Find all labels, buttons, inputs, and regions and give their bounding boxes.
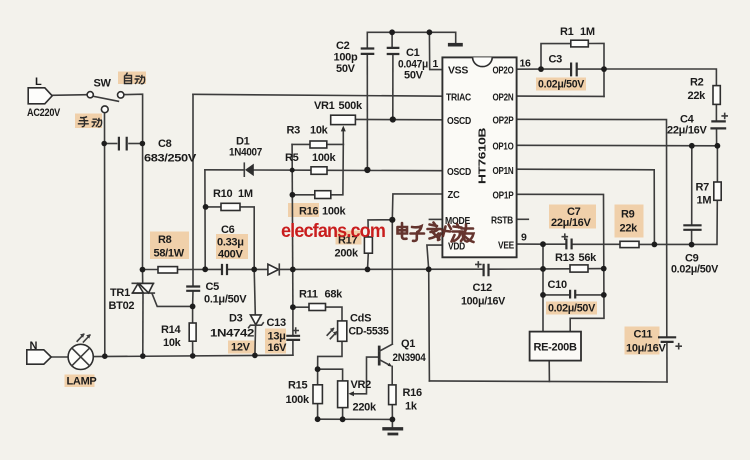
svg-text:C6: C6 (221, 224, 235, 236)
resistor R15 (286, 380, 323, 407)
svg-text:R2: R2 (690, 77, 704, 89)
svg-text:1M: 1M (697, 195, 712, 207)
svg-text:1M: 1M (580, 26, 595, 38)
svg-text:58/1W: 58/1W (154, 248, 185, 260)
wire C7 to R9 (572, 243, 620, 245)
wire OP1P net (517, 194, 604, 331)
svg-text:1M: 1M (238, 188, 253, 200)
svg-text:100k: 100k (286, 394, 310, 406)
capacitor C5 (186, 281, 247, 306)
svg-text:C3: C3 (549, 54, 563, 66)
capacitor C4 (667, 113, 727, 136)
wire C8 node down to R8 node (142, 144, 144, 270)
HIGHLIGHTS (65, 72, 660, 388)
wire R15 leads (317, 369, 319, 385)
wire OP2P net down right side (517, 119, 667, 337)
node R5 line x292 (290, 168, 295, 173)
photoresistor CdS CD-5535 (327, 313, 388, 342)
svg-text:L: L (35, 76, 42, 88)
label 自动 (auto) (125, 73, 145, 84)
svg-text:22k: 22k (688, 90, 707, 102)
node R15 top (315, 366, 321, 372)
svg-text:2N3904: 2N3904 (393, 352, 427, 364)
wire C11 bottom to rail (666, 342, 668, 382)
wire OP1O row (517, 144, 718, 147)
VSS rail bar (448, 43, 463, 47)
wire R14 bottom to lamp line (192, 341, 194, 356)
node VEE C7 (540, 241, 546, 247)
node lamp line triac (140, 353, 146, 359)
svg-text:C5: C5 (206, 281, 220, 293)
resistor R9 (620, 209, 640, 248)
node bus x254 (251, 267, 257, 273)
resistor R1 (560, 26, 595, 47)
svg-text:0.1μ/50V: 0.1μ/50V (204, 294, 247, 306)
svg-text:R16: R16 (403, 387, 422, 399)
switch manual contact (101, 106, 108, 113)
wire mains bus to TRIAC pin (193, 94, 443, 96)
svg-text:0.02μ/50V: 0.02μ/50V (538, 79, 585, 91)
potentiometer VR2 (338, 379, 377, 414)
svg-text:OP2P: OP2P (493, 115, 514, 127)
resistor R6 (299, 191, 346, 218)
wire triac MT2 (142, 270, 144, 284)
node R13 right (601, 266, 607, 272)
node top rail C1 (389, 29, 395, 35)
node lamp line x104 (102, 353, 108, 359)
node R17 bottom bus (365, 267, 371, 273)
wire R7 top (716, 146, 718, 182)
node R10 left (203, 204, 209, 210)
svg-text:R1: R1 (560, 26, 574, 38)
capacitor C11 (626, 329, 681, 355)
node ground row VR2 (340, 416, 346, 422)
wire pin16 stub (517, 68, 541, 70)
potentiometer VR1 (314, 100, 363, 131)
wire R1 feedback loop (541, 44, 571, 70)
wire R13 bus segment (543, 268, 570, 270)
svg-text:D3: D3 (229, 313, 243, 325)
resistor R2 (688, 77, 721, 105)
wire manual contact down to lamp line (104, 113, 106, 357)
svg-text:R16: R16 (299, 206, 318, 218)
svg-text:1: 1 (433, 58, 439, 70)
wire bottom rail (429, 381, 667, 382)
wire ground stem (391, 419, 393, 428)
svg-text:R14: R14 (161, 324, 181, 336)
capacitor C13 (267, 317, 301, 354)
svg-text:56k: 56k (579, 252, 598, 264)
relay module RE-200B (530, 332, 581, 361)
wire CdS bottom jog (318, 341, 342, 369)
wire VR2 bottom (342, 408, 344, 420)
svg-text:R3: R3 (287, 125, 301, 137)
wire OP2N row (517, 95, 604, 97)
wire VDD pin to bus (427, 245, 443, 269)
svg-text:N: N (30, 340, 38, 352)
svg-text:683/250V: 683/250V (144, 153, 197, 165)
wire triac gate (152, 293, 193, 306)
wire C3 leads (541, 68, 571, 70)
wire lamp line (93, 355, 293, 356)
capacitor C9 (671, 225, 719, 275)
wire N to lamp (51, 356, 68, 358)
wire R6 leads (292, 194, 314, 196)
wire D1 corner down to bus (204, 170, 206, 269)
svg-text:50V: 50V (336, 63, 356, 75)
wire R11 leads (293, 306, 309, 308)
wire C2 stems (366, 32, 368, 48)
wire C13 bottom lead (292, 341, 294, 356)
wire R3 row (292, 143, 310, 145)
svg-text:22μ/16V: 22μ/16V (667, 125, 707, 137)
wire ZC down to Q1 collector (391, 220, 393, 344)
node R8 left junction (140, 267, 146, 273)
svg-text:100k: 100k (322, 206, 346, 218)
resistor R3 (287, 125, 329, 149)
node ground row R16 (390, 417, 396, 423)
svg-text:0.02μ/50V: 0.02μ/50V (671, 264, 719, 276)
svg-text:68k: 68k (325, 289, 344, 301)
svg-text:13μ: 13μ (268, 331, 286, 343)
wire ZC branch to R17 (368, 220, 392, 237)
switch auto contact (118, 92, 124, 98)
wire VDD bus y=269 segments (143, 269, 159, 271)
wire R9 to R7 corner (639, 200, 717, 244)
wire C8 right lead (129, 143, 143, 145)
node bus x205 (202, 266, 208, 272)
wire C4 top lead (715, 104, 717, 121)
wire top VSS rail (367, 32, 455, 43)
svg-text:0.02μ/50V: 0.02μ/50V (548, 303, 596, 315)
svg-text:0.33μ: 0.33μ (217, 237, 244, 249)
node pin16 C3 left (538, 66, 544, 72)
svg-text:R10: R10 (213, 188, 232, 200)
node R11 left (290, 304, 296, 310)
node top rail pin1 (427, 29, 433, 35)
wire D3 anode (254, 269, 255, 314)
node C9 top (689, 143, 695, 149)
svg-text:VEE: VEE (498, 240, 514, 252)
svg-text:C8: C8 (158, 138, 172, 150)
resistor R8 (154, 234, 185, 273)
svg-text:CD-5535: CD-5535 (349, 326, 389, 338)
svg-text:VR2: VR2 (351, 379, 372, 391)
node C3 right (601, 66, 607, 72)
resistor R17 (335, 235, 373, 260)
resistor R7 (696, 182, 722, 207)
resistor R16 (389, 385, 422, 413)
wire R16 bottom (391, 405, 393, 420)
wire C8 left lead (104, 143, 116, 145)
svg-text:Q1: Q1 (401, 338, 415, 350)
svg-text:1N4742: 1N4742 (210, 328, 254, 340)
resistor R11 (299, 289, 343, 311)
svg-text:22μ/16V: 22μ/16V (551, 217, 591, 229)
svg-text:R7: R7 (696, 182, 710, 194)
capacitor C12 (461, 262, 506, 308)
wire R2 top corner (604, 69, 716, 86)
wire C4 bottom lead (716, 129, 718, 146)
svg-text:OP2O: OP2O (493, 65, 514, 77)
wire VR1 wiper shaft (342, 129, 344, 145)
wire gate node to R14 (192, 306, 194, 323)
wire VR2 wiper to Q1 base (353, 357, 378, 394)
svg-text:VSS: VSS (448, 65, 468, 77)
wire VEE row to C7 (543, 243, 566, 245)
svg-text:BT02: BT02 (109, 300, 135, 312)
svg-text:C12: C12 (473, 282, 492, 294)
connector L (AC220V live) (27, 76, 61, 119)
wire divider bus x292 (291, 144, 294, 307)
svg-text:C10: C10 (548, 279, 567, 291)
wire x193 bus corner down to C5 (192, 94, 194, 286)
capacitor C2 (334, 40, 375, 75)
capacitor C3 (538, 54, 585, 91)
wire auto contact to C8 right (124, 94, 143, 143)
svg-text:OSCD: OSCD (447, 166, 472, 178)
svg-text:220k: 220k (353, 402, 377, 414)
svg-text:OSCD: OSCD (447, 115, 472, 127)
svg-text:C2: C2 (336, 40, 350, 52)
label 手动 (manual) (78, 117, 102, 127)
svg-text:16: 16 (520, 58, 532, 70)
svg-text:AC220V: AC220V (27, 107, 61, 119)
svg-text:OP1N: OP1N (493, 165, 514, 177)
wire C9 stems (691, 146, 693, 225)
node ground row R15 (315, 416, 321, 422)
resistor R13 (555, 252, 597, 272)
wire RSTB stub (517, 218, 529, 220)
svg-text:R5: R5 (285, 152, 299, 164)
node R13 left (540, 266, 546, 272)
wire D1 R5 row to OSCD (205, 169, 244, 171)
capacitor C7 (551, 206, 591, 249)
svg-text:HT7610B: HT7610B (477, 127, 489, 184)
wire bus down to bottom rail (428, 269, 431, 381)
svg-text:50V: 50V (404, 70, 424, 82)
svg-text:R11: R11 (299, 289, 318, 301)
svg-text:C11: C11 (634, 329, 653, 341)
node ZC branch (389, 217, 395, 223)
svg-text:C13: C13 (267, 317, 286, 329)
wire bottom ground row (318, 418, 393, 420)
svg-text:500k: 500k (339, 100, 363, 112)
node lamp line D3 (252, 353, 258, 359)
diode D1 1N4007 (229, 136, 262, 177)
svg-text:C1: C1 (406, 47, 420, 59)
connector N (neutral) (27, 340, 51, 364)
wire OP1N net (517, 169, 655, 244)
svg-text:SW: SW (94, 78, 112, 90)
svg-text:TRIAC: TRIAC (446, 92, 472, 104)
node C8 left junction (101, 141, 107, 147)
svg-text:CdS: CdS (350, 313, 371, 325)
svg-text:R15: R15 (288, 380, 307, 392)
svg-text:10k: 10k (310, 125, 329, 137)
svg-text:200k: 200k (335, 248, 359, 260)
wire R10 right lead down (240, 207, 254, 270)
wire VEE pin 9 stub (517, 243, 543, 245)
svg-text:R8: R8 (158, 234, 172, 246)
wire Q1 emitter to R16 (391, 366, 393, 385)
svg-text:100k: 100k (312, 152, 336, 164)
svg-text:VR1: VR1 (314, 100, 335, 112)
node C8 right junction (140, 141, 146, 147)
resistor R5 (285, 152, 336, 174)
wire C10 row (543, 294, 568, 296)
wire R10 left lead (206, 206, 221, 208)
svg-text:1N4007: 1N4007 (229, 147, 262, 159)
wire VR1 to OSCD pin (355, 118, 442, 120)
svg-text:R9: R9 (621, 209, 635, 221)
resistor R14 (161, 323, 196, 349)
svg-text:OP2N: OP2N (493, 92, 514, 104)
svg-text:22k: 22k (620, 223, 639, 235)
switch SW common contact (87, 78, 111, 98)
wire triac MT1 to lamp line (142, 293, 144, 356)
watermark 电子发烧友 calligraphy (398, 223, 474, 243)
wire MODE stub (429, 218, 442, 220)
svg-text:ZC: ZC (448, 189, 461, 201)
node C10 right (601, 292, 607, 298)
svg-text:9: 9 (521, 232, 527, 244)
svg-text:10k: 10k (163, 337, 182, 349)
svg-text:RSTB: RSTB (491, 215, 514, 227)
svg-text:R13: R13 (555, 252, 574, 264)
node bus x292 (290, 267, 296, 273)
wire C13 top lead (292, 307, 294, 336)
wire pin1 stub (429, 32, 442, 69)
node R6 left (290, 192, 296, 198)
node gate C5 R14 (190, 304, 196, 310)
IC U1 HT7610B (433, 57, 532, 257)
svg-text:12V: 12V (231, 342, 251, 354)
wire C7 node down to RE-200B (542, 244, 544, 332)
resistor R10 (213, 188, 253, 211)
node C2 bottom (364, 167, 370, 173)
capacitor C1 (387, 47, 428, 82)
node C10 left (540, 292, 546, 298)
transistor Q1 2N3904 (379, 338, 426, 367)
wire R17 bottom to bus (367, 253, 370, 269)
wire C5 bottom to gate node (192, 291, 194, 306)
wire ZC net (392, 194, 442, 220)
svg-text:OP1P: OP1P (493, 190, 514, 202)
node C9 bottom (689, 242, 695, 248)
node C4 R7 (715, 143, 721, 149)
svg-text:100μ/16V: 100μ/16V (461, 296, 506, 308)
node VDD bus (426, 266, 432, 272)
wire C1 stems (391, 32, 393, 47)
svg-text:1k: 1k (405, 401, 418, 413)
svg-text:elecfans.com: elecfans.com (281, 221, 385, 242)
svg-text:100p: 100p (334, 52, 358, 64)
svg-text:TR1: TR1 (110, 287, 130, 299)
ground (382, 429, 403, 434)
node C1 bottom (390, 116, 396, 122)
svg-text:OP1O: OP1O (493, 141, 514, 153)
diode D2 (268, 264, 279, 275)
node lamp line R14 (190, 353, 196, 359)
wire SW blade (93, 96, 118, 101)
svg-text:LAMP: LAMP (67, 376, 97, 388)
node OP1N bottom (652, 242, 658, 248)
capacitor C10 (548, 279, 596, 315)
zener D3 1N4742 (210, 313, 263, 354)
svg-text:RE-200B: RE-200B (534, 342, 577, 354)
wire node to VR2 top (318, 369, 343, 381)
triac TR1 BT02 (109, 283, 155, 312)
lamp LAMP (67, 333, 97, 387)
svg-text:16V: 16V (268, 342, 288, 354)
capacitor C8 (119, 137, 197, 165)
wire RE-200B bottom stub (548, 361, 550, 382)
wire L to SW (52, 94, 87, 97)
capacitor C6 (217, 224, 244, 275)
svg-text:400V: 400V (218, 249, 243, 261)
svg-text:10μ/16V: 10μ/16V (626, 343, 666, 355)
wire D3 cathode to lamp line (254, 325, 257, 355)
